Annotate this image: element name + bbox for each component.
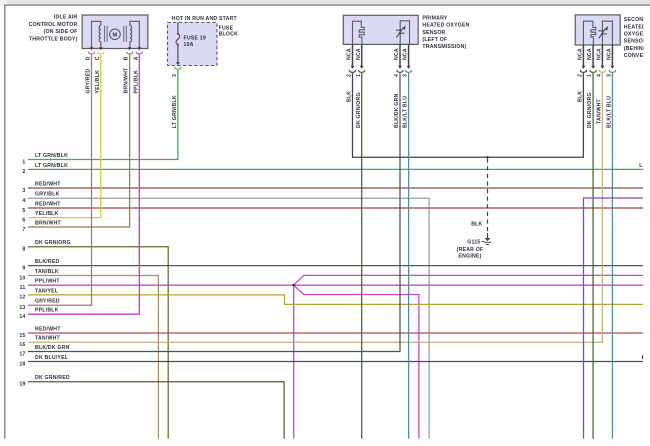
svg-text:18: 18	[19, 361, 25, 367]
wire 4 GRY/BLK	[28, 198, 429, 438]
svg-text:GRY/BLK: GRY/BLK	[35, 192, 60, 198]
svg-text:CONTROL MOTOR: CONTROL MOTOR	[29, 22, 78, 28]
wire 19 DK GRN/RED	[28, 382, 284, 439]
svg-text:1: 1	[587, 74, 593, 77]
svg-text:BLOCK: BLOCK	[219, 32, 238, 38]
svg-text:SENSOR: SENSOR	[624, 39, 647, 45]
svg-text:LT GRN/BLK: LT GRN/BLK	[172, 95, 178, 128]
svg-text:A: A	[133, 56, 139, 60]
svg-text:NCA: NCA	[597, 48, 603, 60]
svg-text:C: C	[95, 56, 101, 60]
wire 7 BRN/WHT to motor pin B	[28, 55, 130, 227]
wire 11 branch upper	[295, 275, 644, 284]
wire 11 branch down	[293, 286, 295, 438]
motor pin B arrow	[128, 47, 132, 50]
svg-text:BLK/RED: BLK/RED	[35, 259, 60, 265]
motor pin B connector fork	[126, 52, 133, 54]
svg-text:(ON SIDE OF: (ON SIDE OF	[44, 29, 78, 35]
svg-text:GRY/RED: GRY/RED	[86, 69, 92, 94]
motor pin A arrow	[137, 47, 141, 50]
svg-text:(BEHIND: (BEHIND	[624, 46, 647, 52]
svg-text:LT GRN/BLK: LT GRN/BLK	[35, 153, 68, 159]
svg-text:G115: G115	[467, 239, 480, 245]
svg-text:YEL/BLK: YEL/BLK	[35, 211, 59, 217]
wire 18 right edge label fragment	[642, 355, 643, 359]
svg-text:RED/WHT: RED/WHT	[35, 201, 61, 207]
svg-text:RED/WHT: RED/WHT	[35, 326, 61, 332]
svg-text:TAN/YEL: TAN/YEL	[35, 288, 59, 294]
ground symbol G115	[484, 233, 491, 245]
wire 11 PPL/WHT trunk	[28, 284, 293, 286]
fuse block dashed box	[168, 23, 218, 66]
svg-text:4: 4	[597, 74, 603, 77]
svg-text:5: 5	[22, 208, 25, 214]
primary sensor sense element	[396, 21, 410, 45]
wire 11 junction splice dot	[292, 284, 295, 287]
wire 6 YEL/BLK to motor pin C	[28, 55, 101, 218]
fuse F19 symbol	[176, 23, 180, 63]
svg-text:NCA: NCA	[578, 48, 584, 60]
motor pin A connector fork	[136, 52, 143, 54]
svg-text:3: 3	[172, 74, 178, 77]
svg-text:DK GRN/ORG: DK GRN/ORG	[587, 92, 593, 128]
svg-text:3: 3	[22, 188, 25, 194]
svg-text:BLK/DK GRN: BLK/DK GRN	[394, 93, 400, 128]
fuse 19 value label	[184, 35, 206, 48]
svg-text:NCA: NCA	[356, 48, 362, 60]
svg-text:14: 14	[19, 314, 25, 320]
idle air control motor box	[82, 15, 148, 49]
svg-text:9: 9	[22, 265, 25, 271]
svg-text:THROTTLE BODY): THROTTLE BODY)	[29, 37, 78, 43]
svg-text:FUSE: FUSE	[219, 25, 234, 31]
svg-text:19: 19	[19, 382, 25, 388]
svg-text:DK BLU/YEL: DK BLU/YEL	[35, 355, 69, 361]
primary sensor heater element	[353, 21, 365, 44]
wire 17 BLK/DK GRN to primary pin 4	[28, 73, 400, 352]
idle air control motor label	[29, 14, 78, 42]
svg-text:NCA: NCA	[347, 48, 353, 60]
svg-text:TAN/WHT: TAN/WHT	[35, 336, 61, 342]
svg-text:TAN/BLK: TAN/BLK	[35, 269, 59, 275]
wire 18 DK BLU/YEL	[28, 361, 643, 363]
secondary sensor pin 2 stub	[582, 45, 584, 66]
svg-text:LT GRN/BLK: LT GRN/BLK	[35, 163, 68, 169]
svg-text:PRIMARY: PRIMARY	[422, 16, 447, 22]
BLK ground splice dot	[486, 156, 488, 158]
G115 label	[457, 239, 485, 259]
BLK wire linking primary pin 2 and secondary pin 2	[353, 73, 584, 157]
svg-text:10: 10	[19, 275, 25, 281]
svg-text:15: 15	[19, 333, 25, 339]
svg-text:(REAR OF: (REAR OF	[457, 247, 484, 253]
svg-text:RED/WHT: RED/WHT	[35, 181, 61, 187]
secondary sensor pin 4 stub	[601, 45, 603, 66]
svg-text:1: 1	[22, 159, 25, 165]
svg-text:DK GRN/ORG: DK GRN/ORG	[356, 92, 362, 128]
svg-text:B: B	[124, 56, 130, 60]
motor pin D arrow	[90, 47, 94, 50]
motor M symbol	[110, 29, 121, 40]
svg-text:M: M	[112, 32, 117, 38]
svg-text:2: 2	[22, 169, 25, 175]
svg-text:DK GRN/RED: DK GRN/RED	[35, 375, 70, 381]
secondary sensor pin 1 stub	[592, 45, 594, 66]
secondary pin 1 DK GRN/ORG vertical	[592, 73, 594, 439]
svg-text:BLK/LT BLU: BLK/LT BLU	[607, 96, 613, 128]
svg-text:IDLE AIR: IDLE AIR	[54, 14, 78, 20]
svg-text:HOT IN RUN AND START: HOT IN RUN AND START	[172, 16, 238, 22]
wire 10 TAN/BLK	[28, 276, 158, 439]
svg-text:NCA: NCA	[607, 48, 613, 60]
wire 3 RED/WHT	[28, 187, 643, 189]
fuse output arrow	[176, 62, 180, 65]
wire 11 branch lower	[295, 286, 419, 439]
wire 12 TAN/YEL with jog	[28, 295, 643, 305]
svg-text:8: 8	[22, 247, 25, 253]
svg-text:6: 6	[22, 217, 25, 223]
svg-text:BRN/WHT: BRN/WHT	[35, 220, 62, 226]
wire 13 GRY/RED to motor pin D	[28, 55, 92, 306]
svg-text:FUSE 19: FUSE 19	[184, 35, 206, 41]
svg-text:BLK/DK GRN: BLK/DK GRN	[35, 345, 70, 351]
BLK dashed lead to ground	[487, 159, 489, 233]
svg-text:PPL/BLK: PPL/BLK	[35, 308, 59, 314]
fuse block label	[219, 25, 238, 37]
secondary heated oxygen sensor label	[624, 17, 650, 59]
wire 11 branch straight	[295, 284, 643, 286]
wire 15 RED/WHT	[28, 332, 643, 334]
svg-text:16: 16	[19, 342, 25, 348]
svg-text:1: 1	[356, 74, 362, 77]
svg-text:2: 2	[578, 74, 584, 77]
motor left coil winding	[92, 21, 108, 48]
primary sensor pin 3 stub	[408, 44, 410, 66]
svg-text:3: 3	[607, 74, 613, 77]
svg-text:3: 3	[403, 74, 409, 77]
svg-text:2: 2	[347, 74, 353, 77]
wire 1 LT GRN/BLK from fuse pin 3	[28, 70, 178, 160]
svg-text:10A: 10A	[184, 42, 194, 48]
svg-text:PPL/WHT: PPL/WHT	[35, 279, 60, 285]
svg-text:BLK: BLK	[578, 91, 584, 102]
svg-text:YEL/BLK: YEL/BLK	[95, 70, 101, 94]
wire 2 LT GRN/BLK	[28, 168, 643, 170]
primary pin 1 DK GRN/ORG vertical	[361, 73, 363, 439]
svg-text:HEATED: HEATED	[624, 24, 646, 30]
svg-text:12: 12	[19, 295, 25, 301]
motor pin C arrow	[99, 47, 103, 50]
secondary sensor sense element	[598, 21, 612, 45]
wire 8 DK GRN/ORG	[28, 247, 168, 439]
svg-text:(LEFT OF: (LEFT OF	[422, 37, 447, 43]
svg-text:13: 13	[19, 305, 25, 311]
svg-text:7: 7	[22, 227, 25, 233]
svg-text:BRN/WHT: BRN/WHT	[124, 67, 130, 94]
svg-text:GRY/RED: GRY/RED	[35, 299, 60, 305]
svg-text:4: 4	[394, 74, 400, 77]
svg-text:ENGINE): ENGINE)	[458, 254, 481, 260]
wire 16 TAN/WHT to secondary pin 4	[28, 73, 602, 342]
svg-text:11: 11	[20, 285, 26, 291]
primary pin 3 BLK/LT BLU vertical	[408, 73, 410, 439]
secondary pin 3 BLK/LT BLU vertical	[611, 73, 613, 439]
svg-text:TAN/WHT: TAN/WHT	[597, 98, 603, 124]
svg-text:NCA: NCA	[403, 48, 409, 60]
svg-text:17: 17	[19, 351, 25, 357]
svg-text:BLK/LT BLU: BLK/LT BLU	[403, 96, 409, 128]
svg-text:SENSOR: SENSOR	[422, 30, 445, 36]
svg-text:BLK: BLK	[471, 222, 482, 228]
wire 9 BLK/RED	[28, 265, 643, 267]
primary sensor pin 4 stub	[399, 44, 401, 66]
motor pin D connector fork	[88, 52, 95, 54]
secondary sensor heater element	[583, 21, 595, 45]
primary sensor pin 1 stub	[361, 44, 363, 66]
svg-text:TRANSMISSION): TRANSMISSION)	[422, 44, 466, 50]
secondary heated oxygen sensor box	[575, 15, 620, 45]
secondary sensor pin 3 stub	[611, 45, 613, 66]
svg-text:NCA: NCA	[394, 48, 400, 60]
svg-text:4: 4	[22, 198, 25, 204]
svg-text:NCA: NCA	[587, 48, 593, 60]
svg-text:D: D	[86, 56, 92, 60]
fuse connector fork	[175, 67, 182, 69]
top toolbar band	[0, 0, 650, 5]
svg-text:DK GRN/ORG: DK GRN/ORG	[35, 240, 71, 246]
wire 14 PPL/BLK to motor pin A	[28, 55, 139, 315]
motor pin C connector fork	[98, 52, 105, 54]
PPL wire from right edge down	[584, 198, 644, 439]
svg-text:BLK: BLK	[347, 91, 353, 102]
primary heated oxygen sensor box	[343, 15, 418, 44]
primary sensor pin 2 stub	[352, 44, 354, 66]
wire 5 RED/WHT	[28, 207, 643, 209]
motor right coil winding	[124, 21, 140, 48]
primary heated oxygen sensor label	[422, 16, 469, 50]
svg-text:HEATED OXYGEN: HEATED OXYGEN	[422, 23, 469, 29]
svg-text:PPL/BLK: PPL/BLK	[133, 70, 139, 94]
